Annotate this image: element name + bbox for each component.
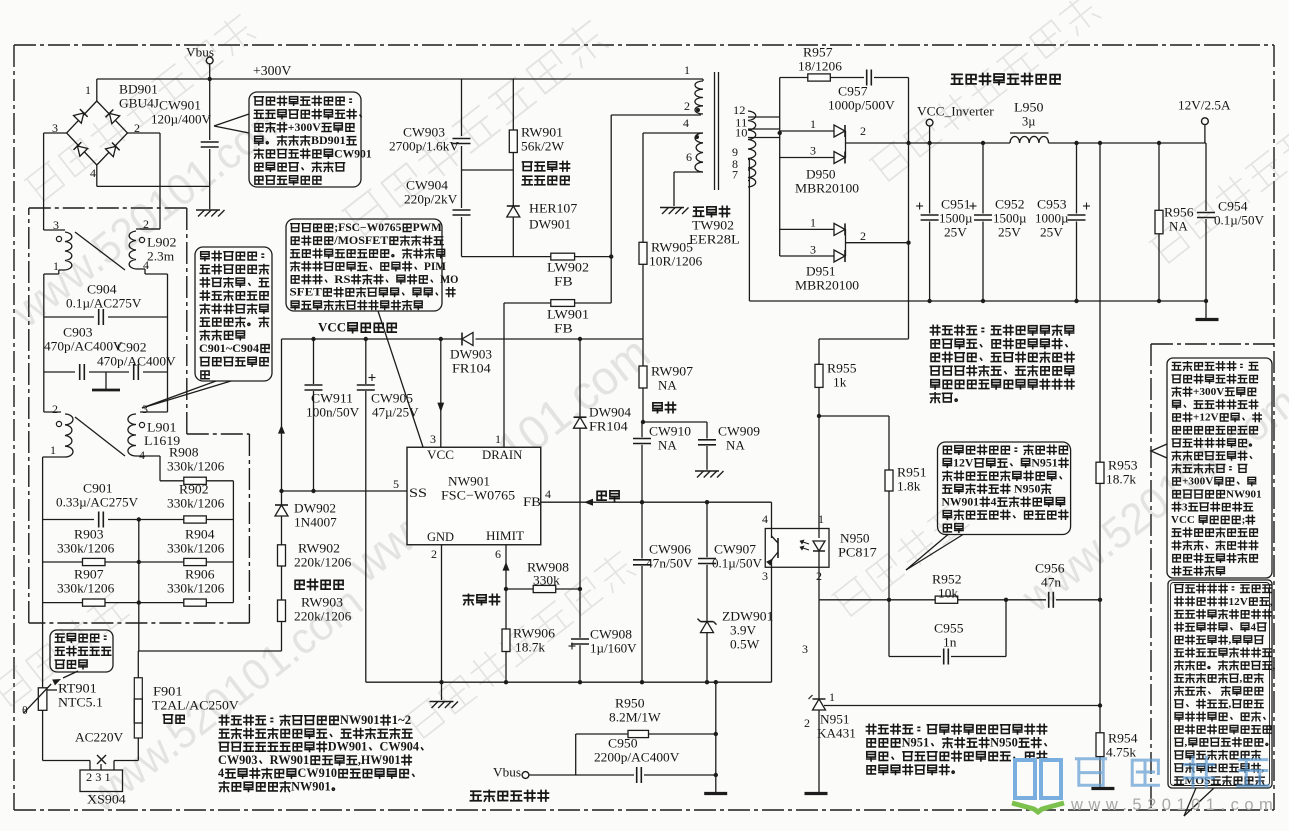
svg-text:D951: D951 (806, 264, 836, 279)
choke L901 right coil (128, 414, 136, 456)
ground (C950) (704, 792, 727, 795)
bridge pin4 wire (96, 165, 98, 186)
wire ladder left rail lower (42, 520, 44, 688)
svg-text:NW901: NW901 (942, 496, 980, 509)
svg-text:6: 6 (495, 547, 501, 561)
capacitor CW910 (641, 422, 643, 437)
svg-text:1n: 1n (943, 635, 957, 650)
svg-text:SFET: SFET (290, 287, 323, 299)
svg-text:1500µ: 1500µ (993, 211, 1027, 226)
watermark (831, 501, 970, 619)
svg-text:GND: GND (427, 530, 454, 544)
svg-text:N950: N950 (1011, 483, 1040, 496)
svg-text:1: 1 (53, 259, 59, 273)
svg-text:BD901: BD901 (311, 134, 346, 147)
capacitor CW904 (461, 170, 463, 208)
shunt regulator N951 (818, 600, 820, 699)
svg-text:NA: NA (1169, 219, 1188, 234)
svg-text:1: 1 (85, 83, 91, 97)
svg-text:3: 3 (53, 218, 59, 232)
svg-text:R953: R953 (1108, 458, 1138, 473)
svg-text:PWM: PWM (413, 222, 443, 234)
capacitor CW905 (365, 339, 367, 384)
svg-text:,: , (1273, 660, 1276, 672)
svg-text:12V/2.5A: 12V/2.5A (1178, 98, 1231, 113)
svg-text:3.9V: 3.9V (730, 623, 757, 638)
wire tap8 (748, 169, 749, 171)
svg-text:CW901: CW901 (159, 98, 201, 113)
svg-text:CW906: CW906 (649, 542, 692, 557)
svg-text:AC220V: AC220V (75, 730, 124, 745)
svg-text:N950: N950 (840, 531, 870, 546)
svg-text:2700p/1.6kV: 2700p/1.6kV (389, 139, 460, 154)
resistor R950 (628, 730, 649, 737)
svg-text:47n/50V: 47n/50V (646, 556, 693, 571)
svg-text:18.7k: 18.7k (515, 640, 546, 655)
svg-text:RT901: RT901 (58, 681, 97, 696)
svg-text:1: 1 (684, 63, 690, 77)
wire aux pin4 (643, 132, 703, 134)
bridge diode D3 (74, 142, 88, 156)
annotation box (hybrid IC) (286, 219, 442, 311)
ground (N951) (805, 792, 828, 795)
diode D950-3 (780, 157, 834, 159)
svg-text:RW901: RW901 (521, 125, 563, 140)
svg-text:VCC: VCC (427, 448, 454, 462)
bridge BD901 outline (67, 101, 128, 165)
svg-text:10R/1206: 10R/1206 (649, 254, 703, 269)
svg-text:220p/2kV: 220p/2kV (404, 192, 458, 207)
svg-text:470p/AC400V: 470p/AC400V (97, 354, 176, 369)
svg-text:N951: N951 (820, 712, 850, 727)
svg-text:XS904: XS904 (87, 792, 126, 807)
watermark (0, 591, 129, 709)
svg-text:CW901: CW901 (334, 147, 372, 160)
svg-text:+300V: +300V (288, 121, 322, 134)
wire L901 top left (43, 372, 45, 412)
svg-text:+300V: +300V (1193, 386, 1224, 398)
watermark (869, 0, 1102, 184)
svg-text:3: 3 (762, 569, 768, 583)
svg-text:330k/1206: 330k/1206 (167, 459, 225, 474)
svg-text:8.2M/1W: 8.2M/1W (609, 710, 661, 725)
choke L902 phase dots (56, 236, 61, 241)
svg-text:,: , (1270, 596, 1273, 608)
svg-text:C903: C903 (63, 325, 93, 340)
choke L902 right coil (129, 231, 136, 269)
optocoupler transistor (771, 529, 773, 539)
wire GND pin (441, 545, 443, 682)
svg-text:2: 2 (804, 716, 810, 730)
wire (left rail mid) (43, 317, 45, 372)
svg-text:R907: R907 (74, 567, 104, 582)
svg-text:RW907: RW907 (651, 364, 694, 379)
bridge pin2 wire (128, 132, 161, 134)
resistor R953 (1099, 143, 1101, 462)
resistor R956 (1158, 143, 1160, 210)
label transformer (693, 206, 729, 216)
wire SS (282, 490, 408, 492)
optocoupler N950 box (765, 529, 829, 568)
svg-text:3: 3 (1182, 501, 1188, 513)
svg-text:R906: R906 (185, 567, 215, 582)
svg-text:RW903: RW903 (301, 595, 343, 610)
zener ZDW901 (701, 621, 714, 623)
svg-text:NW901: NW901 (340, 713, 380, 727)
svg-text:FB: FB (523, 495, 541, 509)
svg-text:0.33µ/AC275V: 0.33µ/AC275V (56, 495, 139, 510)
ground (C902/C903) (105, 372, 107, 390)
watermark (24, 12, 257, 204)
svg-text:1~2: 1~2 (392, 713, 411, 727)
svg-text:N951: N951 (1031, 457, 1058, 470)
svg-text:,HW901: ,HW901 (358, 753, 401, 767)
svg-text:1: 1 (495, 432, 501, 446)
svg-text:4: 4 (218, 766, 224, 780)
resistor RW901 (512, 79, 514, 130)
svg-text:2: 2 (134, 121, 140, 135)
wire D951 cathode (845, 229, 847, 256)
svg-text:CW904: CW904 (380, 740, 420, 754)
svg-text:+12V: +12V (1193, 412, 1219, 424)
svg-text:FR104: FR104 (452, 361, 491, 376)
annotation box (regulation) (938, 442, 1071, 535)
wire primary ground (366, 681, 772, 683)
svg-text:10: 10 (735, 125, 747, 139)
capacitor C901 (43, 519, 94, 521)
svg-text:0.1µ/50V: 0.1µ/50V (1214, 213, 1265, 228)
svg-text:4: 4 (1251, 621, 1257, 633)
wire startup chain upper (281, 339, 283, 505)
svg-text:12V: 12V (1229, 596, 1248, 608)
capacitor C950 (636, 767, 638, 783)
wire VCC rail (282, 338, 463, 340)
svg-text:CW904: CW904 (406, 178, 449, 193)
svg-text:DW902: DW902 (294, 501, 336, 516)
capacitor C957 (830, 77, 864, 79)
svg-text:0.5W: 0.5W (730, 637, 760, 652)
svg-text:120µ/400V: 120µ/400V (151, 112, 212, 127)
diode DW901 (512, 170, 514, 206)
bridge pin3 wire (44, 132, 67, 134)
svg-text:CW909: CW909 (718, 424, 760, 439)
svg-text:330k/1206: 330k/1206 (167, 496, 225, 511)
svg-text:R956: R956 (1164, 205, 1194, 220)
svg-text:C950: C950 (608, 736, 638, 751)
logo book icon (1015, 760, 1061, 798)
svg-text:TW902: TW902 (692, 218, 734, 233)
svg-text:F901: F901 (153, 684, 183, 699)
svg-text:NW901: NW901 (291, 780, 331, 794)
svg-text:ZDW901: ZDW901 (722, 609, 773, 624)
diode DW902 (275, 504, 288, 506)
optocoupler LED (818, 529, 820, 539)
svg-text:DW903: DW903 (450, 347, 492, 362)
ferrite bead LW902 (551, 253, 575, 260)
thermistor RT901 (38, 688, 47, 711)
svg-text:C951: C951 (941, 197, 971, 212)
svg-text:2.3m: 2.3m (147, 249, 174, 264)
watermark (404, 549, 637, 741)
capacitor C955 loop (888, 600, 890, 657)
node 12V terminal (1202, 118, 1209, 125)
wire opto pin3 (771, 567, 773, 682)
resistor R906 (184, 599, 207, 606)
svg-text:R903: R903 (74, 527, 104, 542)
svg-text:7: 7 (732, 167, 738, 181)
svg-text:CW911: CW911 (311, 391, 353, 406)
svg-text:DRAIN: DRAIN (482, 448, 522, 462)
annotation text (regulation) (943, 445, 1067, 454)
svg-text:4: 4 (139, 448, 145, 462)
svg-text:SS: SS (409, 486, 427, 500)
svg-text:DW904: DW904 (589, 405, 631, 420)
svg-text:100n/50V: 100n/50V (306, 405, 360, 420)
connector pin3 mark (100, 764, 102, 770)
svg-text:θ: θ (22, 703, 28, 717)
diode D951-1 (780, 228, 834, 230)
svg-text:C954: C954 (1218, 199, 1248, 214)
svg-text:1000µ: 1000µ (1035, 211, 1069, 226)
wire drain top (462, 256, 551, 258)
svg-text:/MOSFET: /MOSFET (333, 235, 389, 247)
wire 12V rail (909, 142, 1011, 144)
svg-text:CW907: CW907 (714, 542, 757, 557)
watermark (2, 92, 297, 337)
svg-text:C956: C956 (1035, 561, 1065, 576)
svg-text:2200p/AC400V: 2200p/AC400V (594, 750, 680, 765)
wire tap10 (748, 137, 780, 139)
wire R950 loop (576, 733, 628, 735)
capacitor CW906 (641, 502, 643, 558)
resistor R902 (184, 516, 207, 523)
annotation text (limit resistor) (55, 634, 106, 643)
resistor R908 (160, 480, 184, 482)
wire C950 right (715, 682, 717, 793)
svg-text:3: 3 (810, 242, 816, 256)
svg-text:C952: C952 (995, 197, 1025, 212)
diode DW904 branch (579, 339, 581, 417)
capacitor CW911 (313, 339, 315, 384)
svg-text:2 3 1: 2 3 1 (86, 770, 111, 784)
capacitor CW908 (579, 589, 581, 638)
annotation arrow (63, 671, 78, 678)
svg-text:BD901: BD901 (119, 82, 158, 97)
svg-text:1500µ: 1500µ (939, 211, 973, 226)
svg-text:FR104: FR104 (589, 419, 628, 434)
svg-text:RS: RS (334, 274, 350, 286)
svg-text:NW901: NW901 (448, 474, 490, 489)
svg-text:C901~C904: C901~C904 (199, 341, 259, 355)
svg-text:VCC: VCC (1171, 514, 1198, 526)
label neg feedback (463, 594, 499, 604)
svg-text:330k/1206: 330k/1206 (167, 581, 225, 596)
resistor RW905 (642, 133, 644, 242)
wire RT901 to connector (42, 710, 44, 760)
svg-text:N950: N950 (990, 736, 1018, 750)
capacitor CW901 (209, 79, 211, 140)
svg-text:R955: R955 (827, 361, 857, 376)
svg-text:,: , (1240, 673, 1243, 685)
diode D950-1 (780, 130, 834, 132)
svg-text:;FSC−W0765: ;FSC−W0765 (334, 222, 402, 234)
wire R955 to R951 (819, 415, 889, 417)
wire feedback node (642, 421, 707, 423)
svg-text:www.520101.com: www.520101.com (1070, 796, 1278, 814)
svg-text:0.1µ/50V: 0.1µ/50V (712, 556, 763, 571)
svg-text:R902: R902 (179, 482, 209, 497)
svg-text:CW903: CW903 (218, 753, 258, 767)
svg-text:PC817: PC817 (838, 545, 877, 560)
svg-text:1: 1 (810, 117, 816, 131)
choke L902 diagonal (75, 232, 125, 270)
wire opto pin1 (818, 416, 820, 529)
svg-text:RW905: RW905 (651, 240, 693, 255)
resistor RW903 (278, 600, 286, 622)
wire +300V rail (97, 78, 703, 80)
repair hint text (sampling) (866, 724, 1046, 734)
wire tap9 (748, 159, 749, 161)
svg-text:3µ: 3µ (1022, 114, 1036, 129)
svg-text:1µ/160V: 1µ/160V (590, 641, 637, 656)
svg-text:N951: N951 (902, 736, 930, 750)
svg-text:1: 1 (818, 512, 824, 526)
diode DW903 (461, 333, 463, 346)
wire FB (541, 501, 772, 503)
svg-text:4.75k: 4.75k (1106, 745, 1137, 760)
svg-text:CW903: CW903 (403, 125, 445, 140)
node VCC_Inverter (926, 119, 933, 126)
choke L901 bottom wires (43, 456, 65, 458)
wire HIMIT pin (505, 545, 507, 589)
svg-text:2: 2 (431, 547, 437, 561)
svg-text:2: 2 (860, 229, 866, 243)
connector XS904 (80, 770, 123, 792)
choke L901 diagonal (75, 417, 125, 456)
svg-text:330k: 330k (533, 573, 560, 588)
svg-text:330k/1206: 330k/1206 (57, 581, 115, 596)
svg-text:C953: C953 (1037, 197, 1067, 212)
svg-text:,: , (1229, 698, 1232, 710)
capacitor C956 (1048, 592, 1050, 608)
svg-text:MBR20100: MBR20100 (795, 181, 859, 196)
svg-text:1: 1 (50, 443, 56, 457)
wire (right rail mid) (167, 317, 169, 372)
wire VCC pin (440, 339, 442, 447)
svg-text:FB: FB (554, 274, 573, 289)
wire sense row (819, 599, 935, 601)
op-amp U NW901 outline (407, 447, 541, 545)
annotation box (inverter part) (1168, 580, 1272, 788)
annotation text (mains filter) (254, 96, 351, 105)
svg-text:FB: FB (554, 321, 573, 336)
svg-text:NA: NA (726, 438, 745, 453)
svg-text:T2AL/AC250V: T2AL/AC250V (152, 698, 239, 713)
svg-text:DW901: DW901 (529, 217, 571, 232)
wire aux pin6 (674, 171, 703, 173)
watermark (77, 577, 372, 822)
svg-text:EER28L: EER28L (689, 232, 740, 247)
annotation box (mains filter) (249, 92, 361, 187)
label secondary section (951, 74, 1060, 85)
svg-text:R951: R951 (897, 465, 927, 480)
wire secondary return (748, 160, 750, 302)
capacitor CW909 (706, 422, 708, 439)
wire tap12 (748, 116, 780, 118)
svg-text:470p/AC400V: 470p/AC400V (44, 339, 123, 354)
optocoupler light arrows (800, 540, 809, 550)
repair hint text (filter caps) (930, 325, 1073, 335)
svg-text:Vbus: Vbus (493, 765, 521, 780)
bridge diode D2 (106, 110, 120, 124)
capacitor C953 (1076, 143, 1078, 214)
svg-text:;: ; (1242, 514, 1246, 526)
svg-text:18.7k: 18.7k (1106, 472, 1137, 487)
watermark (339, 327, 660, 594)
EMI section boundary (29, 207, 187, 209)
svg-text:D950: D950 (806, 167, 836, 182)
transformer primary dot (696, 108, 700, 112)
logo text (1076, 759, 1105, 786)
annotation text (SMPS part) (1172, 362, 1258, 371)
capacitor C904 (44, 316, 94, 318)
svg-text:VCC: VCC (318, 320, 346, 335)
svg-text:,: , (1185, 737, 1188, 749)
svg-text:2: 2 (684, 99, 690, 113)
svg-text:3: 3 (52, 121, 58, 135)
svg-text:3: 3 (430, 432, 436, 446)
svg-text:2: 2 (52, 402, 58, 416)
svg-text:1N4007: 1N4007 (294, 515, 337, 530)
svg-text:25V: 25V (1040, 225, 1063, 240)
transformer core (714, 72, 716, 190)
svg-text:1.8k: 1.8k (897, 479, 921, 494)
wire anode column (779, 78, 781, 257)
svg-text:DW901: DW901 (328, 740, 368, 754)
svg-text:3: 3 (142, 402, 148, 416)
svg-text:L950: L950 (1014, 100, 1044, 115)
svg-text:0.1µ/AC275V: 0.1µ/AC275V (66, 296, 142, 311)
wire D950 cathode (845, 131, 847, 158)
label spike absorber (523, 161, 570, 171)
svg-text:C957: C957 (838, 84, 868, 99)
label startup (295, 579, 343, 589)
capacitor CW903 (461, 79, 463, 136)
node Vbus2 terminal (522, 772, 529, 779)
svg-text:HER107: HER107 (529, 201, 578, 216)
connector pin1 wire (113, 761, 115, 771)
wire Vbus (529, 774, 634, 776)
resistor R907 (43, 602, 83, 604)
fuse F901 (137, 651, 139, 678)
svg-text:KA431: KA431 (817, 726, 856, 741)
svg-text:CW910: CW910 (649, 424, 691, 439)
svg-text:R957: R957 (803, 45, 833, 60)
svg-text:220k/1206: 220k/1206 (294, 555, 352, 570)
ground (chip) (430, 701, 454, 703)
wire tap11 (748, 128, 780, 130)
choke L902 bottom wires (59, 269, 65, 271)
capacitor C952 (982, 143, 984, 214)
transformer aux coil (695, 133, 703, 172)
wire drain pin (503, 303, 505, 447)
watermark (341, 18, 609, 238)
transformer primary coil (702, 79, 704, 81)
svg-text:NA: NA (658, 378, 677, 393)
svg-text:25V: 25V (944, 225, 967, 240)
ground (R954) (1091, 787, 1114, 790)
svg-text:CW910: CW910 (298, 766, 338, 780)
